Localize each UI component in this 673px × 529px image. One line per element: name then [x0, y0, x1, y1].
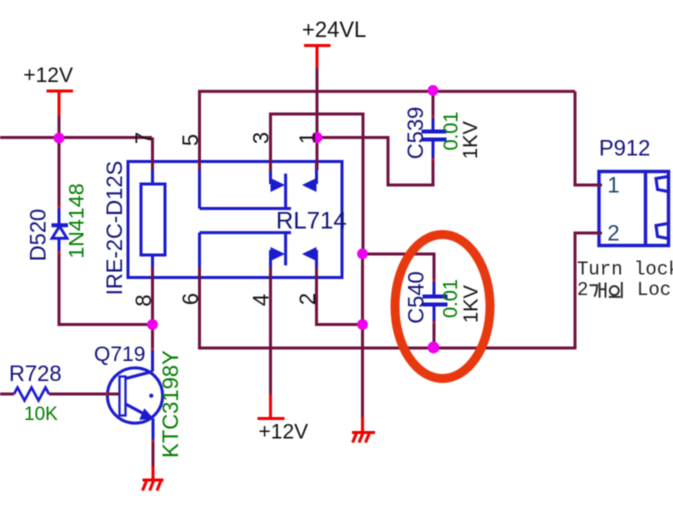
svg-text:2: 2 — [607, 221, 619, 246]
svg-text:1KV: 1KV — [460, 121, 482, 159]
svg-text:RL714: RL714 — [276, 208, 347, 235]
svg-text:10K: 10K — [24, 404, 58, 425]
svg-text:5: 5 — [178, 134, 203, 146]
svg-text:2: 2 — [577, 279, 588, 301]
svg-text:0.01: 0.01 — [441, 112, 463, 151]
svg-text:2: 2 — [295, 293, 320, 305]
svg-text:Turn lock: Turn lock — [577, 259, 673, 281]
svg-text:6: 6 — [178, 293, 203, 305]
svg-text:Q719: Q719 — [94, 343, 145, 366]
svg-text:1: 1 — [607, 173, 619, 198]
svg-text:0.01: 0.01 — [440, 279, 462, 318]
svg-text:7: 7 — [131, 132, 156, 144]
svg-text:P912: P912 — [599, 136, 650, 161]
svg-text:+12V: +12V — [259, 421, 309, 444]
svg-text:D520: D520 — [26, 209, 51, 262]
svg-text:1: 1 — [295, 132, 320, 144]
svg-text:KTC3198Y: KTC3198Y — [158, 350, 183, 458]
svg-text:R728: R728 — [9, 361, 62, 386]
svg-text:Lock: Lock — [637, 279, 673, 301]
svg-text:C540: C540 — [404, 271, 429, 324]
svg-text:1N4148: 1N4148 — [65, 183, 89, 258]
svg-text:3: 3 — [249, 132, 274, 144]
svg-text:+12V: +12V — [23, 64, 73, 87]
svg-text:8: 8 — [131, 294, 156, 306]
svg-text:1KV: 1KV — [461, 285, 483, 323]
svg-text:IRE-2C-D12S: IRE-2C-D12S — [102, 161, 127, 295]
svg-text:+24VL: +24VL — [302, 17, 366, 42]
svg-text:C539: C539 — [403, 107, 428, 160]
svg-text:4: 4 — [249, 294, 274, 306]
